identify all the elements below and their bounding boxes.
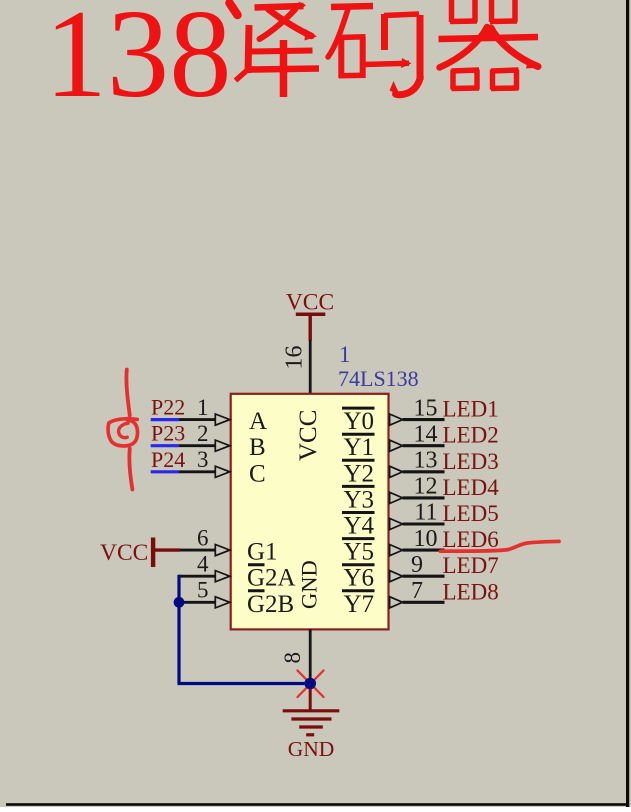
svg-text:LED6: LED6 <box>443 527 499 552</box>
svg-text:Y1: Y1 <box>343 434 374 461</box>
pin Y1 output triangle <box>390 440 403 451</box>
pin Y2 output triangle <box>390 466 403 477</box>
svg-text:A: A <box>249 408 267 435</box>
svg-text:8: 8 <box>280 652 305 664</box>
svg-text:P24: P24 <box>151 447 185 472</box>
wire Y5 stub <box>403 549 445 552</box>
svg-text:LED8: LED8 <box>443 579 499 604</box>
pin 3 input triangle <box>215 466 230 477</box>
svg-text:Y2: Y2 <box>343 460 374 487</box>
wire Y0 stub <box>403 418 445 421</box>
svg-text:G1: G1 <box>247 539 278 566</box>
wire Y3 stub <box>403 496 445 499</box>
junction dot G2B <box>174 597 185 608</box>
wire P24 blue segment <box>151 470 179 473</box>
pin Y0 output triangle <box>390 414 403 425</box>
wire Y4 stub <box>403 522 445 525</box>
svg-text:1: 1 <box>339 342 351 367</box>
svg-text:Y4: Y4 <box>343 513 374 540</box>
svg-text:Y3: Y3 <box>343 486 374 513</box>
wire G2A <box>179 575 215 578</box>
wire G2B <box>179 601 215 604</box>
svg-text:GND: GND <box>288 737 335 761</box>
svg-text:C: C <box>249 460 266 487</box>
annotation squiggle loop <box>108 419 137 446</box>
svg-text:Y6: Y6 <box>343 565 374 592</box>
wire P22 blue segment <box>151 418 179 421</box>
ground symbol <box>309 689 312 710</box>
junction dot ground node <box>304 678 316 690</box>
svg-text:LED3: LED3 <box>443 449 499 474</box>
wire P24 to pin 3 <box>179 470 215 473</box>
pin 1 input triangle <box>215 414 230 425</box>
op-amp U1 74LS138 IC body <box>231 394 389 630</box>
svg-text:5: 5 <box>197 578 209 603</box>
pin Y4 output triangle <box>390 518 403 529</box>
svg-text:138: 138 <box>45 0 232 124</box>
svg-text:Y5: Y5 <box>343 539 374 566</box>
svg-text:VCC: VCC <box>295 410 322 461</box>
svg-text:3: 3 <box>197 447 209 472</box>
annotation squiggle top stroke <box>126 370 129 416</box>
annotation squiggle tail <box>129 449 132 490</box>
title char MA (code) <box>328 6 420 95</box>
wire Y6 stub <box>403 575 445 578</box>
svg-text:LED7: LED7 <box>443 553 499 578</box>
wire pin16 <box>309 340 312 394</box>
svg-text:10: 10 <box>414 526 438 552</box>
wire navy horizontal to ground node <box>178 682 312 685</box>
svg-text:11: 11 <box>414 500 437 526</box>
pin 5 input triangle <box>215 597 230 608</box>
pin 4 input triangle <box>215 571 230 582</box>
wire P22 to pin 1 <box>179 418 215 421</box>
svg-text:6: 6 <box>197 526 209 551</box>
svg-text:7: 7 <box>411 578 423 604</box>
pin Y7 output triangle <box>390 597 403 608</box>
svg-text:G2B: G2B <box>247 591 294 618</box>
title char YI (translate) <box>230 2 320 98</box>
wire navy vertical G2A-G2B-down <box>177 575 180 684</box>
svg-text:G2A: G2A <box>247 565 296 592</box>
right black border <box>626 0 629 807</box>
wire P23 blue segment <box>151 444 179 447</box>
svg-text:14: 14 <box>414 421 438 447</box>
svg-text:13: 13 <box>414 448 438 474</box>
svg-text:16: 16 <box>282 346 308 370</box>
bottom black border <box>6 803 628 806</box>
wire Y7 stub <box>403 601 445 604</box>
svg-text:P22: P22 <box>151 395 185 420</box>
svg-text:74LS138: 74LS138 <box>338 366 419 391</box>
svg-text:LED5: LED5 <box>443 501 499 526</box>
svg-text:VCC: VCC <box>100 540 148 566</box>
svg-text:LED4: LED4 <box>443 475 500 500</box>
pin Y6 output triangle <box>390 571 403 582</box>
pin Y3 output triangle <box>390 492 403 503</box>
wire Y2 stub <box>403 470 445 473</box>
wire G1 <box>180 549 215 552</box>
svg-text:9: 9 <box>411 552 423 578</box>
pin 2 input triangle <box>215 440 230 451</box>
svg-text:4: 4 <box>197 552 209 577</box>
svg-text:1: 1 <box>197 395 209 420</box>
svg-text:GND: GND <box>297 560 322 609</box>
svg-text:B: B <box>249 434 266 461</box>
svg-text:Y0: Y0 <box>343 408 374 435</box>
pin Y5 output triangle <box>390 545 403 556</box>
svg-text:VCC: VCC <box>286 290 334 316</box>
svg-text:15: 15 <box>414 395 438 421</box>
svg-text:P23: P23 <box>151 421 185 446</box>
svg-text:LED1: LED1 <box>443 397 499 422</box>
svg-text:12: 12 <box>414 474 438 500</box>
annotation red line at LED6 <box>441 541 560 551</box>
wire P23 to pin 2 <box>179 444 215 447</box>
wire pin8 <box>309 629 312 683</box>
svg-text:2: 2 <box>197 421 209 446</box>
svg-text:LED2: LED2 <box>443 423 499 448</box>
wire Y1 stub <box>403 444 445 447</box>
annotation red X <box>298 671 324 698</box>
pin 6 input triangle <box>215 545 230 556</box>
title char QI (device) <box>439 0 542 90</box>
svg-text:Y7: Y7 <box>343 591 374 618</box>
